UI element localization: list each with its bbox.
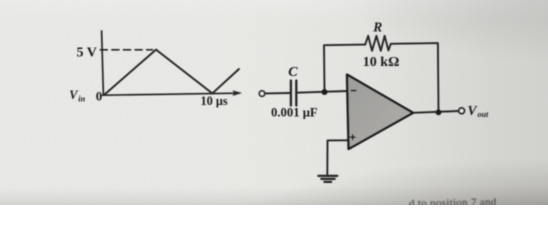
svg-text:in: in [78, 95, 85, 104]
svg-text:0: 0 [96, 89, 103, 104]
svg-text:5 V: 5 V [77, 46, 97, 61]
svg-text:V: V [468, 103, 478, 118]
svg-text:10 kΩ: 10 kΩ [363, 55, 400, 70]
svg-text:0.001 μF: 0.001 μF [271, 105, 318, 119]
svg-text:10 μs: 10 μs [201, 94, 228, 108]
svg-text:R: R [372, 20, 382, 35]
svg-text:C: C [288, 65, 298, 80]
svg-text:out: out [478, 110, 489, 119]
